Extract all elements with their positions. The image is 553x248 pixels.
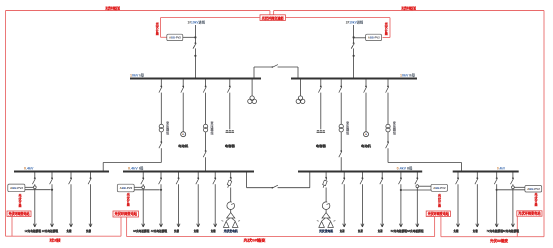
svg-text:2#充电桩群组: 2#充电桩群组 xyxy=(42,228,59,233)
svg-text:负载: 负载 xyxy=(174,228,179,233)
svg-text:2#10kV进线: 2#10kV进线 xyxy=(346,20,364,25)
svg-text:光伏发电机: 光伏发电机 xyxy=(223,228,238,233)
svg-text:负荷: 负荷 xyxy=(340,228,345,233)
svg-text:ABB-PV2: ABB-PV2 xyxy=(527,187,540,191)
svg-text:光伏并网交流柜: 光伏并网交流柜 xyxy=(261,15,284,20)
svg-text:电容器: 电容器 xyxy=(225,143,236,148)
svg-text:组: 组 xyxy=(346,130,349,135)
svg-text:0.4kV II母: 0.4kV II母 xyxy=(397,165,414,170)
svg-text:6#充电桩群组: 6#充电桩群组 xyxy=(407,228,424,233)
svg-text:1#充电桩群组: 1#充电桩群组 xyxy=(25,228,42,233)
svg-text:4#充电桩群组: 4#充电桩群组 xyxy=(151,228,168,233)
svg-text:量: 量 xyxy=(127,201,130,206)
svg-text:8#充电桩群组: 8#充电桩群组 xyxy=(503,228,520,233)
svg-text:电容器: 电容器 xyxy=(316,143,327,148)
svg-text:光伏发电机: 光伏发电机 xyxy=(318,228,333,233)
svg-text:光伏环网变电站: 光伏环网变电站 xyxy=(427,211,450,216)
svg-text:负载: 负载 xyxy=(194,228,199,233)
svg-text:7#充电桩群组: 7#充电桩群组 xyxy=(486,228,503,233)
svg-text:5#充电桩群组: 5#充电桩群组 xyxy=(391,228,408,233)
svg-text:负载: 负载 xyxy=(473,228,478,233)
svg-text:光伏环网变电站: 光伏环网变电站 xyxy=(8,211,31,216)
svg-text:光伏环网变电站: 光伏环网变电站 xyxy=(517,211,541,216)
svg-text:量: 量 xyxy=(156,31,159,36)
svg-text:ABB-PV2: ABB-PV2 xyxy=(169,36,181,40)
svg-text:组: 组 xyxy=(166,130,169,135)
svg-text:ABB-PV2: ABB-PV2 xyxy=(120,186,133,190)
svg-text:光伏环网变电站: 光伏环网变电站 xyxy=(113,211,137,216)
svg-text:量: 量 xyxy=(18,202,21,207)
svg-text:ABB-PV2: ABB-PV2 xyxy=(433,186,446,190)
svg-text:负载: 负载 xyxy=(67,228,72,233)
svg-text:3#充电桩群组: 3#充电桩群组 xyxy=(133,228,150,233)
svg-text:0.4kV I母: 0.4kV I母 xyxy=(128,165,144,170)
svg-text:光伏并网区域: 光伏并网区域 xyxy=(401,6,417,11)
svg-text:负荷: 负荷 xyxy=(378,228,383,233)
svg-text:组: 组 xyxy=(393,130,396,135)
svg-text:负载: 负载 xyxy=(211,228,216,233)
svg-text:组: 组 xyxy=(210,130,213,135)
svg-text:10kV I母: 10kV I母 xyxy=(130,73,145,78)
svg-text:光伏8#箱变: 光伏8#箱变 xyxy=(489,238,509,243)
svg-text:电动机: 电动机 xyxy=(178,143,189,148)
svg-text:1#10kV进线: 1#10kV进线 xyxy=(188,20,206,25)
svg-text:负载: 负载 xyxy=(454,228,459,233)
svg-text:量: 量 xyxy=(534,201,537,206)
svg-text:量: 量 xyxy=(438,202,441,207)
svg-text:光伏并网区域: 光伏并网区域 xyxy=(105,6,121,11)
svg-text:ABB-PV2: ABB-PV2 xyxy=(368,36,380,40)
svg-text:ABB-PV2: ABB-PV2 xyxy=(10,186,23,190)
svg-text:负载: 负载 xyxy=(86,228,91,233)
svg-text:光伏9#箱变: 光伏9#箱变 xyxy=(242,238,266,243)
svg-text:0.4kV: 0.4kV xyxy=(497,166,506,170)
svg-text:10kV II母: 10kV II母 xyxy=(400,73,416,78)
svg-text:负荷: 负荷 xyxy=(358,228,363,233)
svg-text:0.4kV: 0.4kV xyxy=(24,166,34,170)
svg-text:电动机: 电动机 xyxy=(361,143,372,148)
svg-text:量: 量 xyxy=(385,31,388,36)
svg-text:光伏1#箱变: 光伏1#箱变 xyxy=(49,237,61,242)
